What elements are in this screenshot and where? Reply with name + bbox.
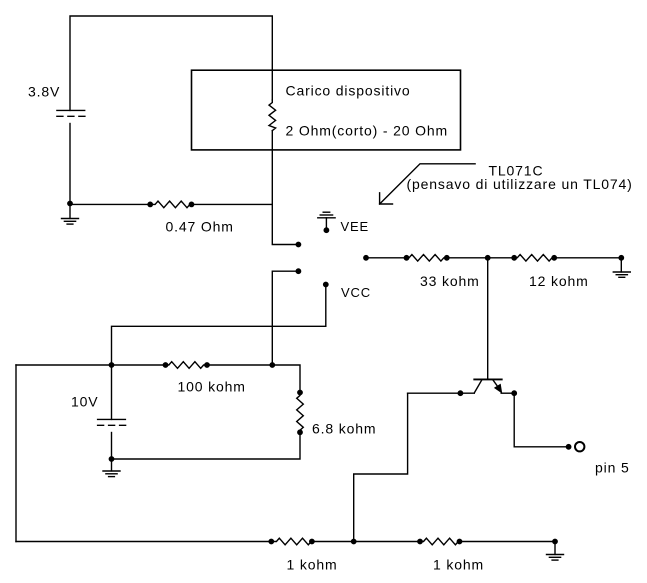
node pin5 wire end xyxy=(566,445,570,449)
node opamp pin OUT xyxy=(364,256,368,260)
label 1 kohm left xyxy=(287,557,338,573)
svg-text:10V: 10V xyxy=(71,393,98,409)
label VEE xyxy=(341,219,370,234)
node collector pin xyxy=(458,391,462,395)
wire 100k to 6.8k top xyxy=(207,365,300,393)
wire 0.47 row xyxy=(70,203,150,205)
wire 100k row xyxy=(16,364,166,366)
resistor RL load (in box, vertical) xyxy=(269,100,276,131)
label 3.8V xyxy=(28,84,60,100)
wire base vertical xyxy=(487,258,489,380)
ground GND4 bottom right xyxy=(547,542,564,561)
label 2 Ohm(corto) - 20 Ohm xyxy=(286,123,449,139)
node junction jumper bottom xyxy=(352,539,356,543)
svg-text:1 kohm: 1 kohm xyxy=(433,557,484,573)
label VCC xyxy=(341,285,371,300)
node bottom ground xyxy=(553,539,557,543)
wire junction to 12k xyxy=(488,257,515,259)
resistor R 33 kohm xyxy=(407,255,447,262)
wire 12k to ground xyxy=(554,257,621,259)
callout arrow to opamp xyxy=(380,164,476,204)
wire VCC stub xyxy=(112,285,326,366)
node pin R33k right xyxy=(445,256,449,260)
node pin R33k left xyxy=(404,256,408,260)
resistor R 1 kohm (left) xyxy=(271,538,312,545)
label pensavo di utilizzare un TL074 xyxy=(407,176,633,192)
wire 33k to junction xyxy=(447,257,488,259)
svg-text:33 kohm: 33 kohm xyxy=(420,273,480,289)
terminal pin 5 circle xyxy=(575,442,584,451)
wire load bottom xyxy=(271,131,273,205)
label 6.8 kohm xyxy=(312,421,376,437)
node opamp pin V- xyxy=(296,269,300,273)
node pin R12k left xyxy=(512,256,516,260)
wire load to opamp V+ stub xyxy=(272,204,298,244)
svg-text:12 kohm: 12 kohm xyxy=(529,273,589,289)
node pin R 0.47 left xyxy=(148,202,152,206)
power symbol VEE (inverted ground) xyxy=(318,212,335,232)
wire top net V3.8 to load xyxy=(70,16,272,110)
label 0.47 Ohm xyxy=(166,219,234,235)
label pin 5 xyxy=(595,460,630,476)
wire left edge xyxy=(15,365,17,542)
label TL071C xyxy=(489,163,544,179)
wire bottom row xyxy=(16,541,271,543)
wire opamp out to 33k xyxy=(366,257,407,259)
resistor R 100 kohm xyxy=(166,362,208,369)
resistor R 6.8 kohm (vertical) xyxy=(297,393,304,433)
node pin R6.8k bottom xyxy=(298,430,302,434)
node opamp pin VCC xyxy=(324,282,328,286)
node 12k ground xyxy=(619,256,623,260)
svg-text:3.8V: 3.8V xyxy=(28,84,60,100)
svg-text:pin 5: pin 5 xyxy=(595,460,630,476)
node pin R1k-1 right xyxy=(310,539,314,543)
svg-text:VEE: VEE xyxy=(341,219,370,234)
svg-text:6.8 kohm: 6.8 kohm xyxy=(312,421,376,437)
svg-text:2 Ohm(corto) - 20 Ohm: 2 Ohm(corto) - 20 Ohm xyxy=(286,123,449,139)
node emitter pin xyxy=(512,391,516,395)
wire collector row xyxy=(408,392,475,394)
wire emitter stub xyxy=(501,392,514,394)
svg-text:VCC: VCC xyxy=(341,285,371,300)
label 1 kohm right xyxy=(433,557,484,573)
wire opamp V- stub xyxy=(272,271,298,365)
resistor R 12 kohm xyxy=(514,255,554,262)
svg-text:Carico dispositivo: Carico dispositivo xyxy=(286,83,411,99)
box carico dispositivo xyxy=(192,70,461,150)
node opamp pin V+ xyxy=(296,242,300,246)
node junction 10V top xyxy=(109,363,113,367)
node junction Vminus net xyxy=(270,363,274,367)
svg-text:1 kohm: 1 kohm xyxy=(287,557,338,573)
battery B1 3.8V xyxy=(57,110,85,203)
node junction 10V minus xyxy=(109,457,113,461)
wire between 1k resistors xyxy=(312,541,420,543)
ground GND3 under 10V battery xyxy=(103,459,120,477)
wire 1k to ground xyxy=(460,541,556,543)
node pin R1k-1 left xyxy=(269,539,273,543)
label Carico dispositivo xyxy=(286,83,411,99)
node pin R 0.47 right xyxy=(189,202,193,206)
wire collector jumper down xyxy=(354,393,408,541)
resistor R 1 kohm (right) xyxy=(420,538,460,545)
node pin R6.8k top xyxy=(298,390,302,394)
resistor R 0.47 Ohm xyxy=(150,201,191,208)
node pin R12k right xyxy=(552,256,556,260)
svg-text:0.47 Ohm: 0.47 Ohm xyxy=(166,219,234,235)
wire 6.8k bottom row xyxy=(112,432,301,459)
wire 0.47 to load wire xyxy=(192,203,273,205)
node junction battery- / 0.47 xyxy=(68,201,72,205)
label 100 kohm xyxy=(178,378,246,394)
node pin R100k left xyxy=(163,363,167,367)
ground GND2 right of 12k xyxy=(613,258,630,278)
battery B2 10V xyxy=(98,419,126,459)
ground GND1 under 3.8V battery xyxy=(62,204,79,225)
wire 10V top xyxy=(111,365,113,419)
node pin R100k right xyxy=(205,363,209,367)
svg-text:100 kohm: 100 kohm xyxy=(178,378,246,394)
node pin R1k-2 right xyxy=(457,539,461,543)
svg-text:(pensavo di utilizzare un TL07: (pensavo di utilizzare un TL074) xyxy=(407,176,633,192)
transistor Q1 xyxy=(474,379,501,393)
label 12 kohm xyxy=(529,273,589,289)
wire emitter to pin5 xyxy=(514,393,568,447)
node pin R1k-2 left xyxy=(418,539,422,543)
label 33 kohm xyxy=(420,273,480,289)
label 10V xyxy=(71,393,98,409)
node junction base feedback xyxy=(486,256,490,260)
